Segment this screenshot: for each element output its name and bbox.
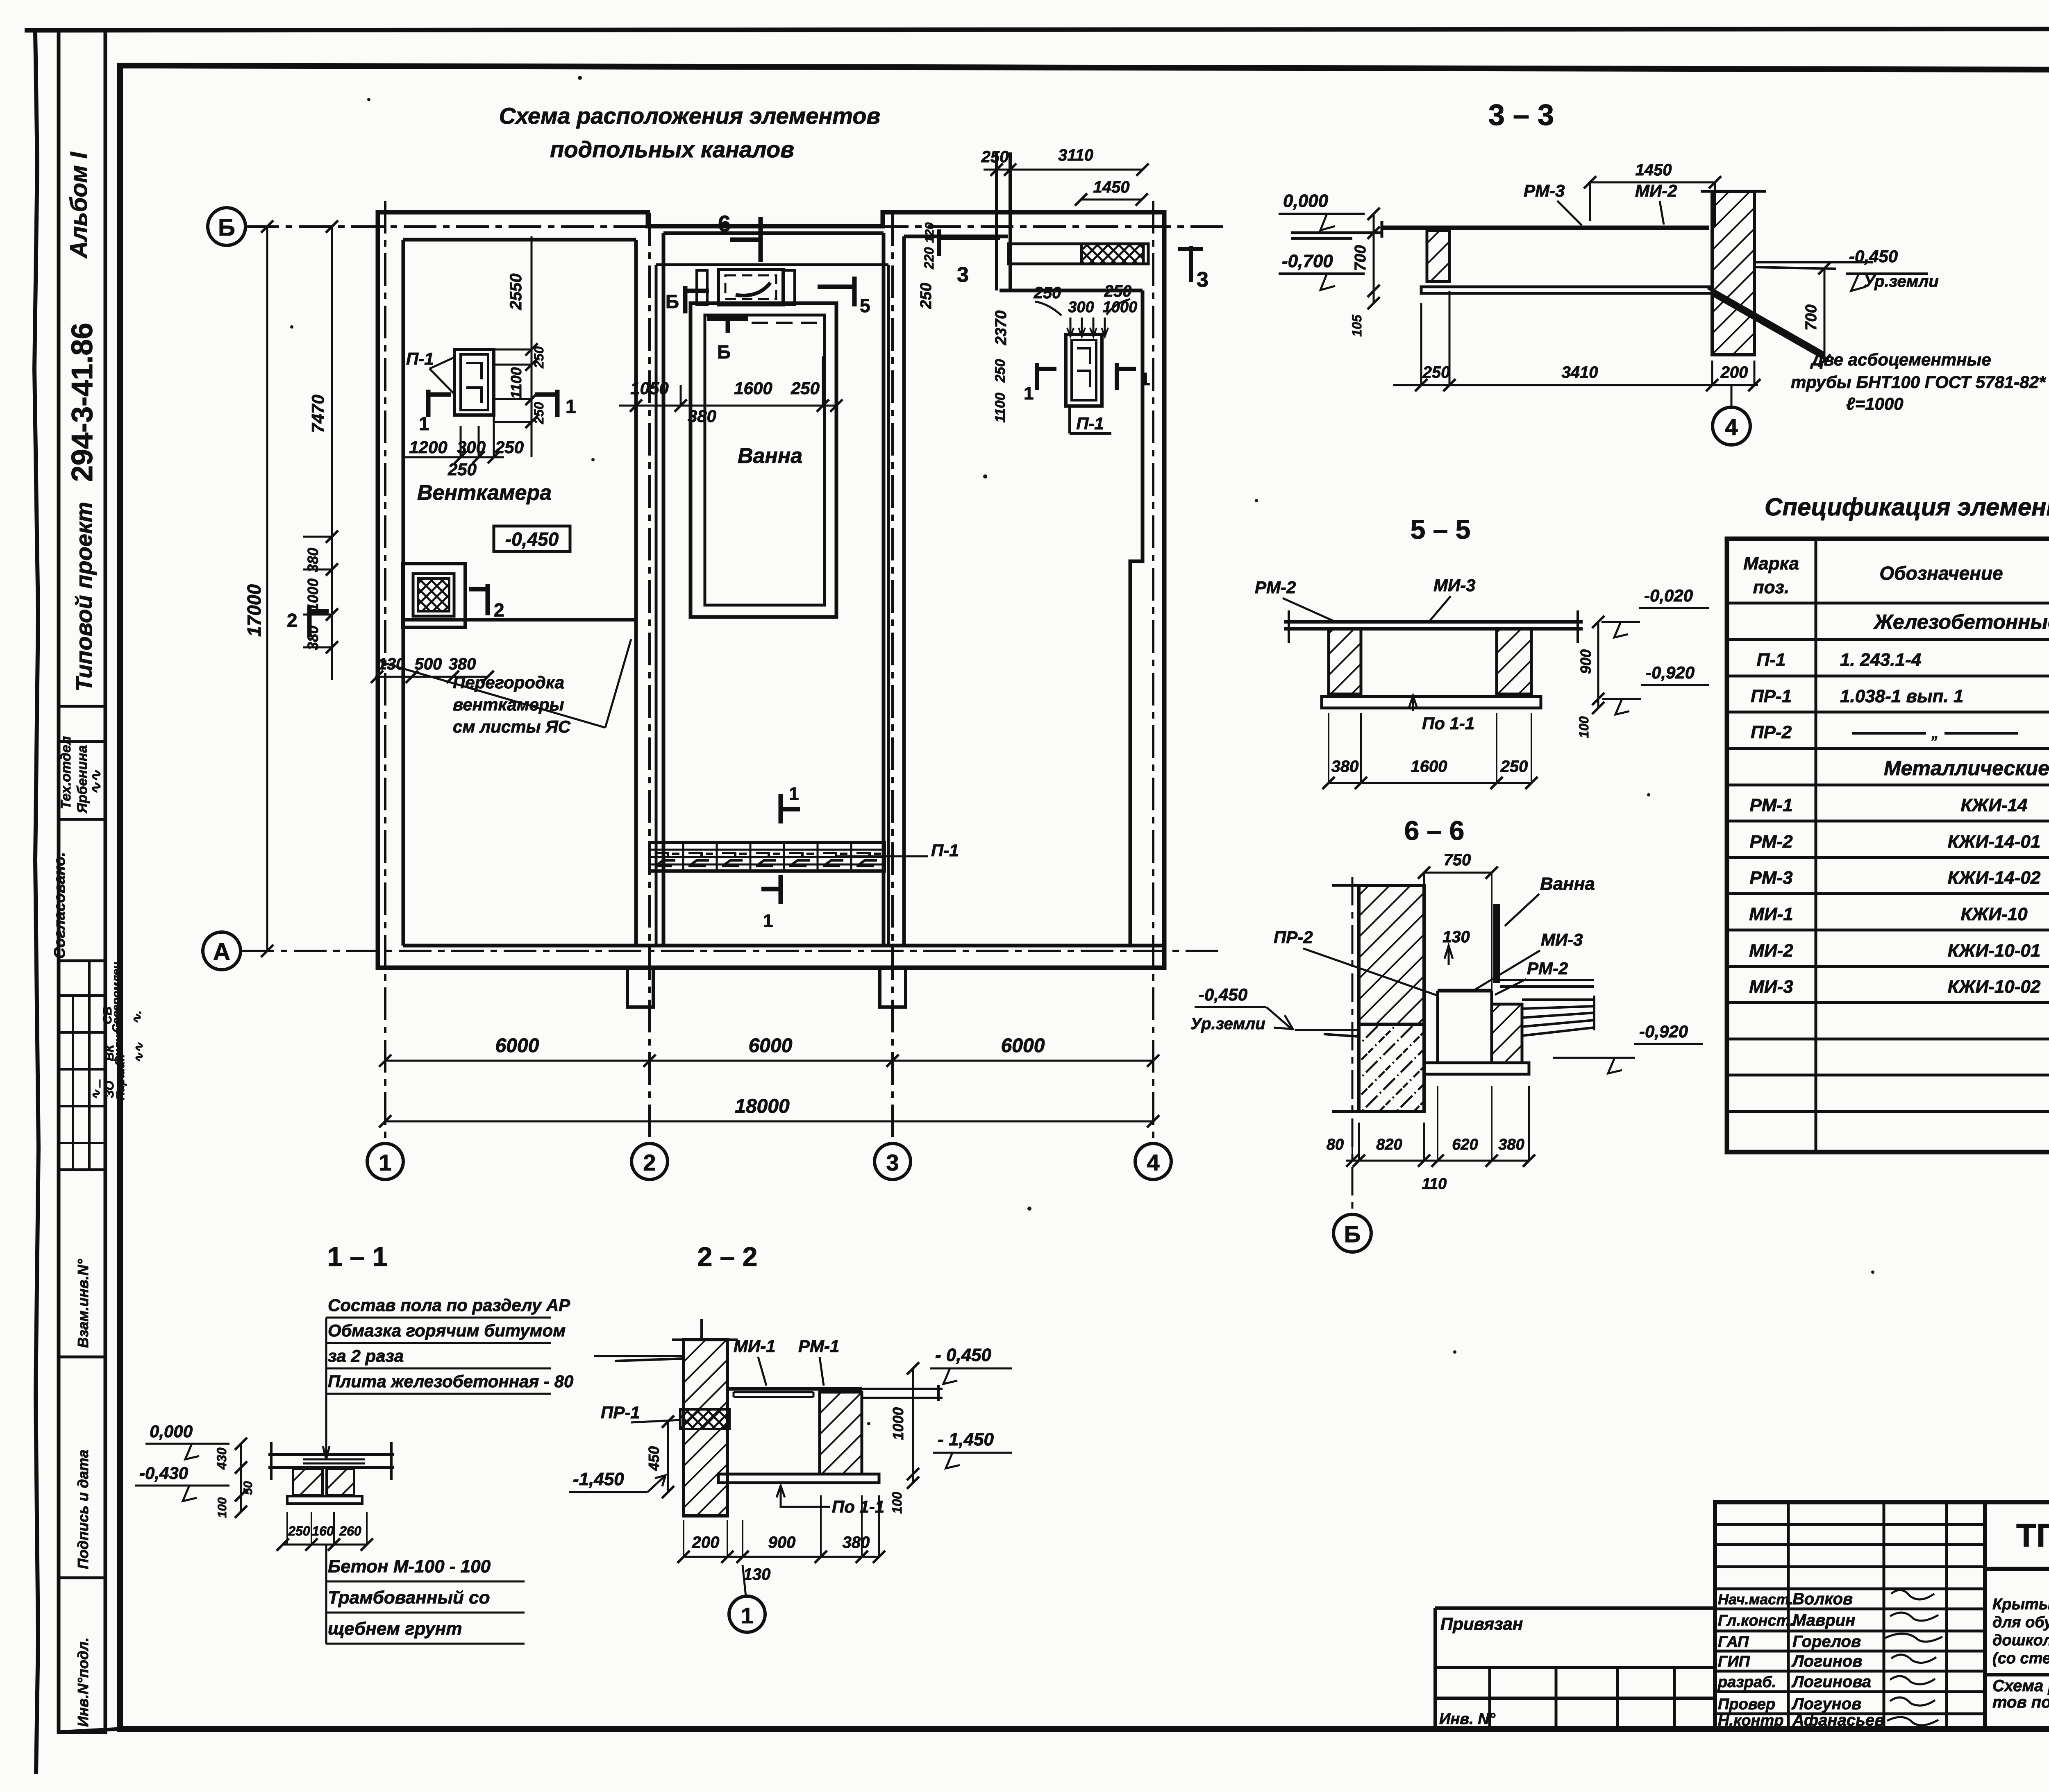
frame top heavy line left part: [25, 66, 120, 66]
svg-text:ТП 294-3-41.86: ТП 294-3-41.86: [2016, 1517, 2049, 1554]
svg-text:380: 380: [688, 406, 716, 426]
s66 dim 750 top: [1424, 872, 1492, 874]
svg-text:1: 1: [379, 1150, 391, 1175]
s22 channel cover line: [727, 1387, 862, 1391]
s11 floor slab lines: [268, 1454, 394, 1468]
svg-text:3110: 3110: [1058, 146, 1093, 164]
s11 vertical dims 430 50 100: [240, 1444, 242, 1512]
svg-text:Маврин: Маврин: [1792, 1611, 1855, 1629]
s66 bottom dims 80 820 620 380: [1346, 1160, 1529, 1162]
bath inner outline: [705, 315, 825, 605]
svg-text:80: 80: [1327, 1136, 1344, 1153]
svg-text:Н.контр: Н.контр: [1718, 1712, 1783, 1729]
s33 floor line left: [1291, 233, 1382, 238]
cut mark 1 pair in right bay: [1037, 363, 1056, 390]
svg-text:3 – 3: 3 – 3: [1488, 99, 1554, 132]
svg-text:250: 250: [532, 402, 546, 424]
s66 floor layer lines right: [1522, 996, 1594, 1036]
svg-text:Подпись и дата: Подпись и дата: [75, 1449, 91, 1569]
partition leader diagonal: [381, 639, 631, 728]
svg-text:разраб.: разраб.: [1717, 1674, 1776, 1691]
svg-text:МИ-1: МИ-1: [734, 1336, 776, 1356]
svg-text:250: 250: [495, 438, 524, 457]
svg-text:4: 4: [1725, 414, 1738, 440]
svg-text:250: 250: [1422, 363, 1450, 381]
svg-text:120: 120: [923, 222, 936, 243]
svg-text:-0,920: -0,920: [1639, 1022, 1688, 1041]
svg-text:3: 3: [957, 263, 969, 287]
duct riser lines through top wall: [997, 152, 1010, 290]
svg-text:2550: 2550: [507, 274, 525, 311]
svg-text:Б: Б: [717, 341, 731, 363]
s22 grid circle 1: [729, 1596, 765, 1632]
grid circle 3: [875, 1143, 911, 1180]
svg-text:130: 130: [743, 1565, 771, 1583]
svg-text:1: 1: [566, 396, 576, 417]
svg-text:Горелов: Горелов: [1792, 1633, 1861, 1651]
svg-text:∿∿: ∿∿: [132, 1042, 146, 1063]
top right dim 1450: [1081, 199, 1142, 201]
svg-text:Две асбоцементные: Две асбоцементные: [1810, 350, 1991, 369]
s22 wall hatched: [684, 1340, 727, 1516]
svg-text:ПР-1: ПР-1: [1751, 686, 1792, 706]
svg-text:1: 1: [1024, 383, 1034, 404]
svg-text:1. 243.1-4: 1. 243.1-4: [1840, 650, 1921, 670]
svg-text:Обозначение: Обозначение: [1879, 563, 2003, 584]
level mark -0.450 boxed: [494, 526, 570, 551]
s33 bottom dims 250 3410 200: [1393, 384, 1758, 386]
floor drain box: [403, 564, 465, 627]
svg-text:дошкольного возраста: дошкольного возраста: [1992, 1632, 2049, 1649]
plate element P-1 in right bay: [1066, 334, 1102, 406]
svg-text:110: 110: [1422, 1175, 1447, 1193]
svg-text:- 0,450: - 0,450: [935, 1345, 992, 1365]
svg-text:250: 250: [981, 148, 1009, 166]
s33 channel cover slab: [1382, 226, 1709, 230]
svg-text:По 1-1: По 1-1: [1422, 714, 1474, 733]
svg-text:трубы БНТ100 ГОСТ 5781-82*: трубы БНТ100 ГОСТ 5781-82*: [1791, 372, 2046, 392]
grid circle B: [208, 208, 245, 245]
pilaster at grid 2: [627, 968, 653, 1007]
grid circle 2: [632, 1143, 668, 1180]
svg-text:Б: Б: [1344, 1221, 1361, 1247]
cut mark 1 left in vent chamber: [428, 390, 451, 417]
s55 po 1-1 label with arrow: [1409, 696, 1417, 711]
svg-text:П-1: П-1: [1757, 650, 1786, 670]
cut mark 1 right in vent chamber: [535, 390, 557, 417]
spec table row lines: [1727, 603, 2049, 1111]
s22 bottom dims 200 900 380 130: [684, 1556, 879, 1558]
s33 right vertical dim 700: [1824, 268, 1826, 361]
svg-text:МИ-3: МИ-3: [1541, 930, 1583, 949]
svg-text:2: 2: [494, 599, 504, 621]
svg-text:РМ-2: РМ-2: [1749, 832, 1793, 852]
svg-text:КЖИ-10-01: КЖИ-10-01: [1948, 941, 2041, 961]
s33 right wall hatched: [1712, 191, 1754, 355]
svg-text:МИ-2: МИ-2: [1635, 181, 1677, 200]
grid circle 1: [367, 1143, 403, 1180]
spec table column lines: [1816, 539, 2049, 1152]
svg-text:А: А: [213, 939, 230, 965]
svg-text:см листы ЯС: см листы ЯС: [453, 717, 571, 736]
svg-text:1: 1: [741, 1604, 753, 1628]
s66 right pier hatched: [1492, 1004, 1522, 1063]
svg-text:МИ-3: МИ-3: [1433, 576, 1476, 595]
grid line 3: [891, 213, 894, 1143]
cross hatched vent opening: [1081, 244, 1143, 264]
svg-text:1: 1: [419, 413, 429, 434]
svg-text:820: 820: [1376, 1136, 1402, 1153]
s66 grid circle B: [1333, 1214, 1371, 1252]
svg-text:7470: 7470: [308, 395, 327, 433]
svg-text:Схема расположения элемен-: Схема расположения элемен-: [1992, 1677, 2049, 1695]
svg-text:100: 100: [216, 1497, 229, 1518]
svg-text:160: 160: [312, 1524, 334, 1538]
middle bay room outline: [656, 265, 888, 946]
svg-text:380: 380: [304, 548, 321, 572]
cut mark 1 strip lower: [761, 875, 781, 904]
svg-text:-0,450: -0,450: [505, 529, 559, 550]
s33 channel bottom slab: [1421, 287, 1712, 293]
svg-text:1: 1: [763, 911, 773, 931]
s66 ground line: [1295, 1030, 1359, 1037]
svg-text:4: 4: [1147, 1150, 1159, 1175]
top dim row 1050 1600 250 380: [619, 405, 836, 407]
wall niche in right bay top: [1009, 244, 1148, 264]
svg-text:250: 250: [288, 1524, 310, 1538]
svg-text:700: 700: [1803, 304, 1820, 330]
svg-text:100: 100: [890, 1492, 904, 1514]
svg-text:МИ-3: МИ-3: [1749, 977, 1793, 997]
svg-text:венткамеры: венткамеры: [453, 695, 564, 714]
svg-text:0,000: 0,000: [150, 1422, 193, 1441]
s22 bottom plate: [718, 1474, 879, 1483]
vertical chain 2550 250 1100 250: [531, 236, 533, 457]
svg-text:Плита железобетонная - 80: Плита железобетонная - 80: [328, 1372, 573, 1391]
cut mark 5: [818, 277, 854, 306]
svg-text:220: 220: [922, 247, 936, 270]
sig table columns: [1788, 1502, 1947, 1729]
grid line 4: [1152, 201, 1154, 1143]
sheet top outer line: [25, 29, 2049, 30]
arrows to P-1 slots: [1070, 318, 1105, 336]
svg-text:300: 300: [457, 438, 486, 457]
sig table rows: [1715, 1524, 1985, 1714]
cut mark 2 lower left: [309, 606, 329, 637]
precast cover strip over channel: [650, 842, 884, 871]
top right dims 250 3110: [984, 169, 1143, 171]
svg-text:Перегородка: Перегородка: [453, 673, 564, 692]
svg-text:Альбом I: Альбом I: [66, 151, 92, 259]
s22 wall top extension: [672, 1319, 738, 1340]
svg-text:„: „: [1931, 726, 1939, 742]
svg-text:Ванна: Ванна: [1540, 874, 1595, 894]
svg-text:50: 50: [241, 1481, 255, 1495]
svg-text:∿∿: ∿∿: [87, 770, 104, 795]
svg-text:ГИП: ГИП: [1718, 1653, 1750, 1670]
spec table outer border: [1727, 539, 2049, 1152]
s11 channel piers hatched: [293, 1469, 323, 1495]
svg-text:Б: Б: [218, 214, 235, 241]
sheet title box: [1985, 1673, 2049, 1676]
svg-text:П-1: П-1: [406, 349, 434, 368]
s66 axis chain in wall: [1352, 877, 1354, 1213]
svg-text:6 – 6: 6 – 6: [1404, 815, 1465, 846]
svg-text:Ур.земли: Ур.земли: [1864, 272, 1939, 290]
svg-text:Логинова: Логинова: [1791, 1673, 1871, 1691]
s11 bottom plate: [287, 1496, 362, 1504]
svg-text:250: 250: [448, 460, 477, 479]
svg-text:250: 250: [1034, 284, 1061, 302]
svg-text:Привязан: Привязан: [1440, 1614, 1523, 1633]
svg-text:Тех.отдел: Тех.отдел: [58, 736, 74, 809]
svg-text:Состав пола по разделу АР: Состав пола по разделу АР: [328, 1295, 570, 1315]
svg-text:1.038-1 вып. 1: 1.038-1 вып. 1: [1840, 686, 1963, 706]
cover strip plank joints: [683, 842, 851, 871]
svg-text:-0,450: -0,450: [1199, 985, 1247, 1004]
svg-text:поз.: поз.: [1753, 577, 1789, 597]
svg-text:щебнем грунт: щебнем грунт: [328, 1619, 462, 1639]
svg-text:380: 380: [843, 1533, 870, 1552]
svg-text:380: 380: [1331, 758, 1359, 776]
s55 right vertical dims 900 100: [1597, 622, 1599, 708]
stamp lower sections: [59, 1356, 105, 1359]
s22 right pier hatched: [820, 1392, 862, 1474]
s22 floor lines right of pier: [862, 1385, 943, 1401]
grid circle A: [203, 932, 241, 970]
svg-text:-0,450: -0,450: [1849, 247, 1898, 266]
svg-text:250: 250: [918, 283, 935, 309]
svg-text:1200: 1200: [409, 438, 447, 457]
svg-text:260: 260: [339, 1524, 361, 1538]
plan inner wall faces left bay: [403, 240, 636, 946]
svg-text:1450: 1450: [1093, 178, 1130, 196]
svg-text:130: 130: [1442, 928, 1470, 946]
svg-text:КЖИ-14-02: КЖИ-14-02: [1948, 868, 2041, 888]
svg-text:17000: 17000: [243, 584, 265, 637]
svg-text:Венткамера: Венткамера: [417, 481, 552, 505]
svg-text:РМ-1: РМ-1: [798, 1336, 839, 1356]
svg-text:РМ-2: РМ-2: [1527, 959, 1568, 978]
svg-text:6: 6: [718, 211, 731, 236]
svg-text:-0,430: -0,430: [139, 1463, 188, 1483]
svg-text:-0,700: -0,700: [1282, 251, 1333, 271]
svg-text:1: 1: [1140, 369, 1150, 389]
s33 ground line right: [1754, 262, 1873, 269]
svg-text:300: 300: [1068, 299, 1094, 316]
svg-text:6000: 6000: [749, 1035, 793, 1057]
svg-text:430: 430: [214, 1447, 229, 1470]
svg-text:105: 105: [1349, 314, 1364, 337]
svg-text:Б: Б: [666, 291, 679, 312]
P-1 dim row 1200 300 250 250: [403, 456, 504, 458]
svg-text:МИ-2: МИ-2: [1749, 941, 1793, 961]
svg-text:П-1: П-1: [931, 841, 959, 860]
svg-text:1600: 1600: [1411, 758, 1447, 776]
svg-text:200: 200: [692, 1533, 720, 1552]
plate element P-1 in vent chamber: [454, 349, 494, 415]
cut mark 1 strip upper: [781, 794, 800, 823]
svg-text:ПР-2: ПР-2: [1751, 722, 1792, 742]
svg-text:1600: 1600: [734, 379, 772, 398]
left stamp column outer: [59, 32, 105, 1732]
s33 left pier hatched: [1427, 231, 1449, 281]
svg-text:2: 2: [643, 1150, 656, 1175]
svg-text:5 – 5: 5 – 5: [1411, 514, 1471, 544]
svg-text:КЖИ-14-01: КЖИ-14-01: [1948, 832, 2041, 852]
svg-text:750: 750: [1444, 851, 1471, 869]
svg-text:По 1-1: По 1-1: [832, 1497, 884, 1516]
equipment inner dashed detail: [725, 275, 776, 299]
stamp agreement table lines: [59, 705, 105, 708]
s55 cover slab: [1284, 622, 1583, 629]
svg-text:5: 5: [860, 295, 870, 316]
svg-text:1050: 1050: [630, 379, 668, 398]
svg-text:-0,020: -0,020: [1644, 586, 1693, 605]
plan middle bay top wall inner line: [663, 233, 884, 946]
svg-text:Логинов: Логинов: [1791, 1652, 1862, 1670]
s66 bottom plate: [1424, 1063, 1529, 1074]
s55 bottom plate: [1322, 696, 1541, 708]
svg-text:∿.: ∿.: [130, 1011, 144, 1024]
cut mark 2 upper: [469, 584, 488, 615]
svg-text:РМ-3: РМ-3: [1524, 181, 1565, 200]
s66 channel walls: [1438, 991, 1492, 1063]
svg-text:Ур.земли: Ур.земли: [1190, 1015, 1265, 1033]
stamp column bottom tie: [59, 1729, 120, 1732]
grid line 2: [648, 213, 651, 1143]
left dimension chain 7470 380 1000 380: [331, 227, 333, 680]
s22 left vertical dim 450: [667, 1422, 669, 1492]
svg-text:ℓ=1000: ℓ=1000: [1846, 394, 1904, 413]
plan outer wall outline: [378, 212, 1164, 968]
svg-text:ГАП: ГАП: [1718, 1633, 1749, 1651]
svg-text:РМ-2: РМ-2: [1255, 578, 1296, 597]
svg-text:Типовой проект: Типовой проект: [71, 502, 97, 692]
svg-text:1000: 1000: [890, 1407, 906, 1440]
cover strip plank texture: [650, 856, 884, 858]
svg-text:3: 3: [886, 1150, 899, 1175]
s66 main wall rubble lower: [1359, 1024, 1424, 1111]
svg-text:КЖИ-14: КЖИ-14: [1960, 795, 2027, 815]
cut mark 3 left: [939, 229, 1000, 256]
svg-text:Крытый бассейн с ванной 3×7 м: Крытый бассейн с ванной 3×7 м: [1992, 1596, 2049, 1613]
project code box: [1985, 1502, 2049, 1569]
svg-text:500: 500: [415, 655, 442, 673]
svg-text:1450: 1450: [1636, 161, 1672, 179]
svg-text:Марка: Марка: [1743, 553, 1799, 574]
svg-text:(со стенами из кирпича): (со стенами из кирпича): [1992, 1650, 2049, 1667]
svg-text:250: 250: [532, 346, 546, 369]
svg-text:0,000: 0,000: [1283, 191, 1329, 211]
s22 lintel PR-1 in wall: [680, 1409, 729, 1429]
svg-text:Афанасьев: Афанасьев: [1792, 1711, 1884, 1729]
svg-text:КЖИ-10: КЖИ-10: [1960, 904, 2028, 924]
svg-text:- 1,450: - 1,450: [938, 1429, 994, 1449]
svg-text:450: 450: [645, 1446, 662, 1471]
svg-text:100: 100: [1577, 716, 1591, 738]
svg-text:Согласовано.: Согласовано.: [51, 852, 68, 959]
svg-text:Провер: Провер: [1718, 1696, 1775, 1713]
svg-text:РМ-3: РМ-3: [1749, 868, 1792, 888]
bottom dimension row 18000: [385, 1121, 1153, 1123]
s33 asbestos pipes diagonal: [1708, 288, 1829, 361]
svg-text:2 – 2: 2 – 2: [697, 1241, 758, 1272]
svg-text:для обучения плаванию детей: для обучения плаванию детей: [1992, 1614, 2049, 1631]
s11 note leader spine: [323, 1318, 329, 1459]
grid axis A chain line: [241, 950, 1225, 952]
svg-text:Взам.инв.N°: Взам.инв.N°: [75, 1259, 91, 1348]
svg-text:18000: 18000: [735, 1096, 790, 1117]
bath inlet equipment box: [718, 270, 783, 305]
grid circle 4: [1135, 1143, 1171, 1180]
svg-text:-1,450: -1,450: [573, 1469, 624, 1489]
svg-text:3410: 3410: [1562, 363, 1598, 381]
plan right bay walls inner faces: [904, 236, 1143, 946]
svg-text:Паршин: Паршин: [114, 1054, 127, 1100]
svg-text:РМ-1: РМ-1: [1749, 795, 1792, 815]
s33 left vertical dim 700 105: [1373, 214, 1375, 303]
svg-text:Волков: Волков: [1792, 1590, 1853, 1608]
cut mark B inner: [707, 319, 748, 333]
cut mark 3 right: [1178, 246, 1203, 282]
svg-text:1 – 1: 1 – 1: [327, 1241, 388, 1272]
svg-text:Трамбованный со: Трамбованный со: [328, 1588, 490, 1608]
svg-text:2370: 2370: [993, 311, 1010, 346]
svg-text:-0,920: -0,920: [1646, 663, 1695, 682]
svg-text:П-1: П-1: [1076, 414, 1104, 433]
s66 channel cover: [1438, 989, 1492, 993]
s66 bath wall: [1493, 904, 1500, 983]
svg-text:1: 1: [789, 784, 799, 804]
svg-text:Нач.маст.: Нач.маст.: [1718, 1591, 1793, 1608]
title block signature table outer: [1715, 1502, 1985, 1729]
svg-text:Схема расположения элементов: Схема расположения элементов: [499, 103, 881, 129]
s66 main wall hatched: [1359, 885, 1424, 1024]
pilaster at grid 3: [880, 968, 906, 1007]
s55 bottom dims 380 1600 250: [1329, 782, 1531, 784]
svg-text:Ванна: Ванна: [738, 444, 802, 468]
svg-text:ПР-2: ПР-2: [1274, 928, 1313, 947]
plan bottom wall inner face: [403, 944, 1164, 948]
svg-text:700: 700: [1352, 245, 1369, 271]
svg-text:2: 2: [287, 610, 298, 631]
svg-text:3: 3: [1197, 268, 1209, 292]
svg-text:Гл.конст.: Гл.конст.: [1718, 1612, 1794, 1629]
sheet left ragged scan edge: [34, 32, 39, 1774]
svg-text:Инв.N°подл.: Инв.N°подл.: [75, 1638, 91, 1727]
s33 dim 1450 top: [1590, 181, 1715, 184]
svg-text:200: 200: [1720, 363, 1748, 381]
svg-text:1000: 1000: [304, 578, 321, 611]
svg-text:∿﹍: ∿﹍: [89, 1077, 103, 1100]
svg-text:380: 380: [449, 655, 476, 673]
svg-text:Спецификация элементов подпо: Спецификация элементов подпольных канало…: [1765, 493, 2049, 521]
s55 left pier hatched: [1329, 629, 1361, 694]
left attachment box: [1435, 1608, 1715, 1729]
s11 bottom dims 250 160 260: [283, 1544, 367, 1546]
svg-text:1100: 1100: [508, 367, 525, 399]
bottom dimension row 6000x3: [385, 1060, 1153, 1062]
svg-text:294-3-41.86: 294-3-41.86: [66, 323, 99, 482]
svg-text:380: 380: [1498, 1136, 1524, 1153]
svg-text:900: 900: [1577, 649, 1594, 674]
svg-text:6000: 6000: [495, 1035, 539, 1057]
cut 6-6 dashed trace in middle bay: [752, 322, 818, 324]
svg-text:ПР-1: ПР-1: [601, 1403, 640, 1422]
left dimension 17000: [266, 227, 268, 951]
svg-text:Железобетонные элементы: Железобетонные элементы: [1873, 610, 2049, 633]
